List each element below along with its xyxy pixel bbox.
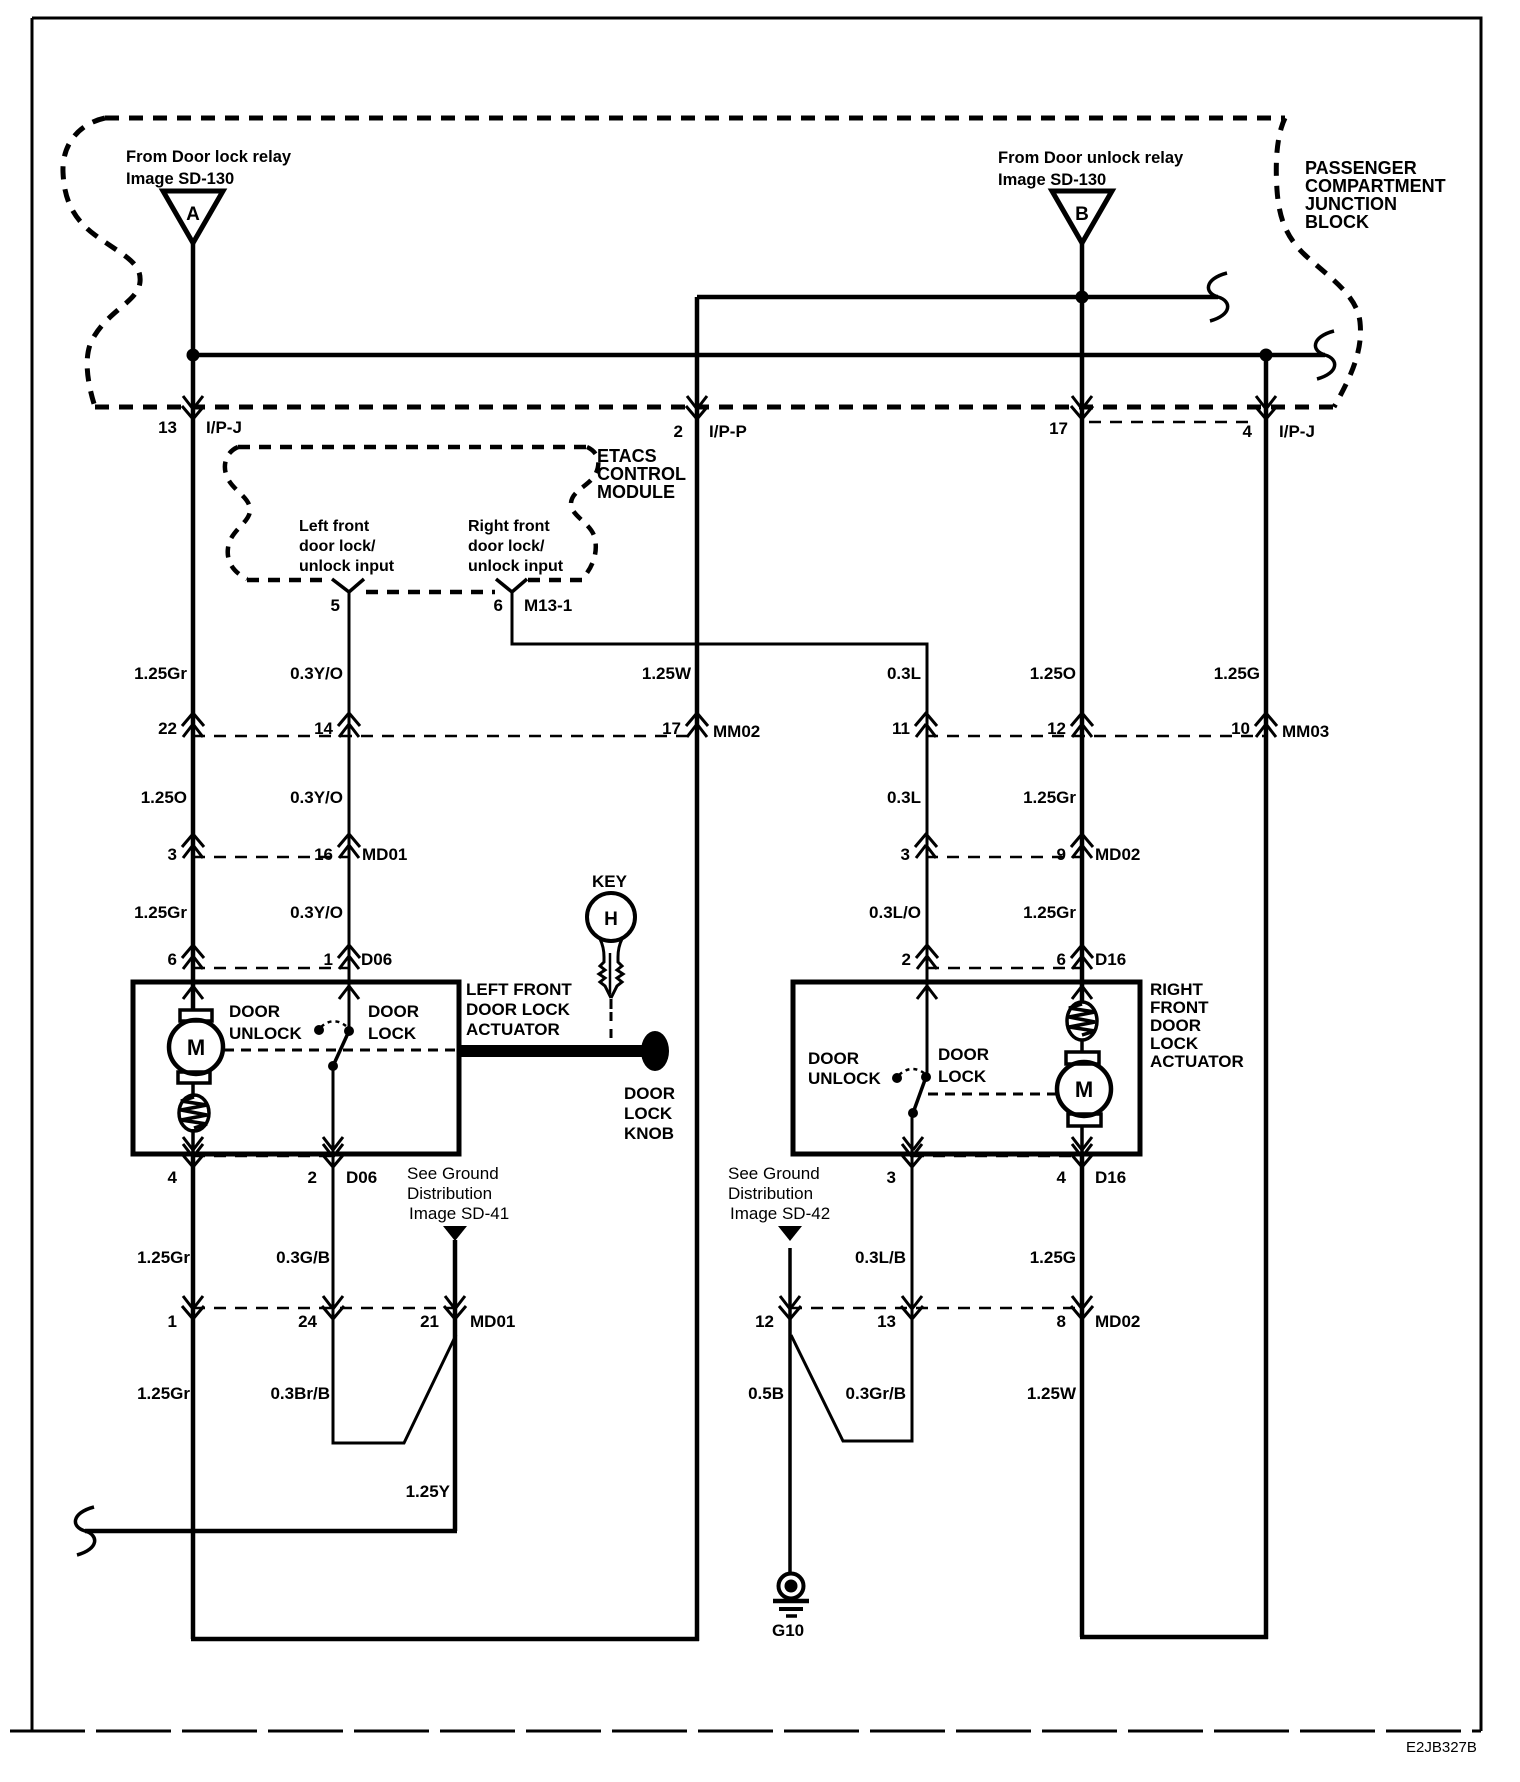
- wire right switch output (0.3L/B / 0.3Gr/B) x=912: [791, 1113, 912, 1441]
- connector row MD01 bottom dashed link: [193, 1307, 455, 1310]
- svg-text:MD01: MD01: [470, 1312, 515, 1331]
- svg-text:5: 5: [331, 596, 340, 615]
- wire left switch output (0.3G/B / 0.3Br/B) x=333: [333, 1066, 456, 1443]
- svg-text:1.25Gr: 1.25Gr: [137, 1384, 190, 1403]
- wire gauge labels row 2: [141, 788, 1077, 807]
- svg-text:6: 6: [168, 950, 177, 969]
- label Right front door lock/unlock input: [468, 518, 564, 575]
- svg-text:0.3G/B: 0.3G/B: [276, 1248, 330, 1267]
- svg-text:0.3Y/O: 0.3Y/O: [290, 788, 343, 807]
- svg-text:MM02: MM02: [713, 722, 760, 741]
- connector 9 MD02 (up): [1057, 834, 1141, 864]
- arrow up pin6 inside box: [1072, 986, 1092, 999]
- svg-text:3: 3: [901, 845, 910, 864]
- svg-text:D16: D16: [1095, 950, 1126, 969]
- svg-text:A: A: [186, 204, 200, 225]
- door lock knob rod: [459, 1045, 645, 1057]
- svg-text:4: 4: [1057, 1168, 1067, 1187]
- wire pin5 ETACS down (0.3Y/O) x=349: [348, 590, 351, 1031]
- motor M1 body: [169, 1020, 223, 1074]
- connector 11 MM03 (up): [892, 713, 937, 738]
- svg-text:ACTUATOR: ACTUATOR: [1150, 1052, 1244, 1071]
- svg-text:1.25O: 1.25O: [141, 788, 187, 807]
- svg-text:4: 4: [168, 1168, 178, 1187]
- mechanical link dashed inside box: [224, 1049, 458, 1052]
- svg-text:M: M: [187, 1035, 205, 1060]
- svg-text:2: 2: [902, 950, 911, 969]
- svg-text:CONTROL: CONTROL: [597, 464, 686, 484]
- arrow up pin2 inside box: [917, 986, 937, 999]
- switch common node right box: [908, 1108, 918, 1118]
- wire ground drop (0.5B) x=790: [788, 1248, 792, 1575]
- svg-text:unlock input: unlock input: [468, 558, 564, 575]
- svg-text:13: 13: [877, 1312, 896, 1331]
- svg-text:LOCK: LOCK: [1150, 1034, 1199, 1053]
- mechanical link dashed right box: [928, 1093, 1056, 1096]
- connector 8 MD02 (down): [1057, 1296, 1141, 1331]
- motor M2 body: [1057, 1062, 1111, 1116]
- label RIGHT FRONT DOOR LOCK ACTUATOR: [1150, 980, 1244, 1071]
- wire bottom horizontal left (1.25Gr to 1.25W) y=1639: [191, 1637, 699, 1642]
- svg-text:Distribution: Distribution: [407, 1184, 492, 1203]
- svg-text:12: 12: [1047, 719, 1066, 738]
- connector 3 MD02 (up): [901, 834, 937, 864]
- connector 12 MD02 (down): [755, 1296, 801, 1331]
- connector row D16 top dashed link: [927, 967, 1082, 970]
- dashed link 17 to 4: [1089, 421, 1253, 424]
- key head circle H: [587, 893, 635, 941]
- label DOOR UNLOCK right box: [808, 1049, 881, 1088]
- svg-text:UNLOCK: UNLOCK: [808, 1069, 881, 1088]
- connector row MD01 dashed link: [193, 856, 349, 859]
- svg-text:0.3Y/O: 0.3Y/O: [290, 664, 343, 683]
- svg-text:B: B: [1075, 204, 1089, 225]
- svg-text:KNOB: KNOB: [624, 1124, 674, 1143]
- svg-text:MD02: MD02: [1095, 1312, 1140, 1331]
- svg-text:BLOCK: BLOCK: [1305, 212, 1369, 232]
- svg-text:ETACS: ETACS: [597, 446, 657, 466]
- svg-text:DOOR: DOOR: [1150, 1016, 1201, 1035]
- connector 10 MM03 (up): [1231, 713, 1329, 741]
- svg-text:1.25G: 1.25G: [1214, 664, 1260, 683]
- svg-text:LOCK: LOCK: [938, 1067, 987, 1086]
- key shank with teeth: [599, 939, 611, 998]
- svg-text:JUNCTION: JUNCTION: [1305, 194, 1397, 214]
- svg-text:0.3L: 0.3L: [887, 664, 921, 683]
- wire below right box (1.25G / 1.25W) x=1082: [1080, 1155, 1085, 1637]
- svg-text:0.3L: 0.3L: [887, 788, 921, 807]
- svg-text:1.25W: 1.25W: [1027, 1384, 1077, 1403]
- label DOOR LOCK left box: [368, 1002, 419, 1043]
- switch contact door unlock (left): [314, 1025, 324, 1035]
- label DOOR UNLOCK left box: [229, 1002, 302, 1043]
- connector 2 D06 (down): [308, 1144, 378, 1187]
- ground G10 symbol: [772, 1574, 809, 1641]
- svg-text:2: 2: [308, 1168, 317, 1187]
- svg-text:0.5B: 0.5B: [748, 1384, 784, 1403]
- svg-text:1: 1: [168, 1312, 177, 1331]
- breaker coil left: [179, 1095, 209, 1131]
- arrow up pin6 inside box: [183, 986, 203, 999]
- motor M1 brush tab bottom: [178, 1072, 210, 1083]
- connector 2 I/P-P (down): [674, 396, 747, 441]
- svg-text:G10: G10: [772, 1621, 804, 1640]
- label See Ground Distribution Image SD-41: [407, 1164, 509, 1223]
- arrow up pin1 inside box: [339, 986, 359, 999]
- connector row D06 top dashed link: [193, 967, 349, 970]
- wire B down x=1082: [1080, 243, 1085, 1002]
- svg-text:COMPARTMENT: COMPARTMENT: [1305, 176, 1446, 196]
- connector 3 MD01 (up): [168, 834, 204, 864]
- svg-text:From Door unlock relay: From Door unlock relay: [998, 149, 1184, 167]
- svg-text:DOOR LOCK: DOOR LOCK: [466, 1000, 571, 1019]
- svg-text:10: 10: [1231, 719, 1250, 738]
- svg-text:Image SD-42: Image SD-42: [730, 1204, 830, 1223]
- connector 3 D16 (down): [887, 1144, 923, 1187]
- svg-text:1.25Y: 1.25Y: [406, 1482, 451, 1501]
- wire gauge labels row 4: [137, 1248, 1076, 1267]
- svg-text:Left front: Left front: [299, 518, 370, 535]
- passenger compartment junction block dashed outline: [105, 116, 1285, 121]
- connector 6 D16 (up): [1057, 945, 1127, 969]
- connector 24 MD01 (down): [298, 1296, 344, 1331]
- wire below left box (1.25Gr) x=193: [191, 1155, 196, 1639]
- svg-text:UNLOCK: UNLOCK: [229, 1024, 302, 1043]
- svg-text:16: 16: [314, 845, 333, 864]
- switch blade: [333, 1031, 349, 1066]
- wire horizontal top (to squiggle) y=297: [697, 295, 1218, 300]
- svg-text:0.3Y/O: 0.3Y/O: [290, 903, 343, 922]
- svg-text:MM03: MM03: [1282, 722, 1329, 741]
- connector 2 D16 (up): [902, 945, 938, 969]
- label DOOR LOCK right box: [938, 1045, 989, 1086]
- svg-text:From Door lock relay: From Door lock relay: [126, 148, 292, 166]
- connector 16 MD01 (up): [314, 834, 407, 864]
- label See Ground Distribution Image SD-42: [728, 1164, 830, 1223]
- svg-text:LOCK: LOCK: [368, 1024, 417, 1043]
- svg-text:DOOR: DOOR: [368, 1002, 419, 1021]
- svg-text:MD02: MD02: [1095, 845, 1140, 864]
- svg-text:0.3L/O: 0.3L/O: [869, 903, 921, 922]
- svg-text:D06: D06: [361, 950, 392, 969]
- ground feed triangle SD-41: [443, 1226, 467, 1241]
- svg-text:FRONT: FRONT: [1150, 998, 1209, 1017]
- node junction dot A wire y=355: [187, 349, 200, 362]
- wire 21 MD01 down (1.25Y) x=455: [453, 1240, 458, 1531]
- svg-text:0.3Gr/B: 0.3Gr/B: [846, 1384, 906, 1403]
- right front door lock actuator box: [793, 982, 1140, 1154]
- svg-text:17: 17: [662, 719, 681, 738]
- svg-text:1.25W: 1.25W: [642, 664, 692, 683]
- svg-text:I/P-J: I/P-J: [206, 418, 242, 437]
- svg-text:DOOR: DOOR: [624, 1084, 675, 1103]
- connector 12 MM03 (up): [1047, 713, 1093, 738]
- ground feed triangle SD-42: [778, 1226, 802, 1241]
- svg-text:4: 4: [1243, 422, 1253, 441]
- svg-text:1.25Gr: 1.25Gr: [1023, 903, 1076, 922]
- svg-text:Image SD-41: Image SD-41: [409, 1204, 509, 1223]
- svg-text:DOOR: DOOR: [229, 1002, 280, 1021]
- switch contact door lock right box: [921, 1072, 931, 1082]
- wire A down (1.25Gr / 1.25O / 1.25Gr) x=193: [191, 243, 196, 1011]
- svg-text:24: 24: [298, 1312, 317, 1331]
- motor M1 brush tab top: [180, 1010, 212, 1021]
- svg-text:Right front: Right front: [468, 518, 550, 535]
- node junction dot 4/IPJ wire y=355: [1260, 349, 1273, 362]
- switch blade right box: [913, 1077, 926, 1113]
- svg-text:I/P-J: I/P-J: [1279, 422, 1315, 441]
- switch motion dashed arc: [321, 1021, 346, 1027]
- svg-text:M: M: [1075, 1077, 1093, 1102]
- arrow down to pin4 inside box: [1072, 1137, 1092, 1150]
- svg-text:DOOR: DOOR: [808, 1049, 859, 1068]
- svg-text:I/P-P: I/P-P: [709, 422, 747, 441]
- svg-text:Image SD-130: Image SD-130: [998, 171, 1106, 189]
- svg-text:0.3L/B: 0.3L/B: [855, 1248, 906, 1267]
- svg-text:1.25O: 1.25O: [1030, 664, 1076, 683]
- connector 6 D06 (up): [168, 945, 204, 969]
- svg-text:11: 11: [892, 719, 910, 738]
- node junction dot B wire y=297: [1076, 291, 1089, 304]
- left front door lock actuator box: [133, 982, 459, 1154]
- label PASSENGER COMPARTMENT JUNCTION BLOCK: [1305, 158, 1446, 232]
- connector row MM03 dashed link: [926, 735, 1266, 738]
- svg-text:M13-1: M13-1: [524, 596, 572, 615]
- svg-text:Distribution: Distribution: [728, 1184, 813, 1203]
- svg-text:See Ground: See Ground: [407, 1164, 499, 1183]
- door lock knob: [641, 1031, 669, 1071]
- wire motor to coil: [191, 1083, 195, 1097]
- svg-text:LOCK: LOCK: [624, 1104, 673, 1123]
- svg-text:3: 3: [887, 1168, 896, 1187]
- svg-text:0.3Br/B: 0.3Br/B: [270, 1384, 330, 1403]
- svg-text:LEFT FRONT: LEFT FRONT: [466, 980, 572, 999]
- svg-text:KEY: KEY: [592, 872, 628, 891]
- svg-text:MODULE: MODULE: [597, 482, 675, 502]
- wire break squiggle right end y=297: [1208, 273, 1227, 321]
- svg-text:9: 9: [1057, 845, 1066, 864]
- svg-text:21: 21: [420, 1312, 439, 1331]
- connector 1 MD01 (down): [168, 1296, 204, 1331]
- svg-text:12: 12: [755, 1312, 774, 1331]
- wire gauge labels row 3: [134, 903, 1076, 922]
- connector 14 MM02 (up): [314, 713, 360, 738]
- svg-text:1.25Gr: 1.25Gr: [1023, 788, 1076, 807]
- svg-text:ACTUATOR: ACTUATOR: [466, 1020, 560, 1039]
- svg-text:E2JB327B: E2JB327B: [1406, 1739, 1477, 1756]
- svg-text:MD01: MD01: [362, 845, 407, 864]
- arrow down to pin4 inside box: [183, 1137, 203, 1150]
- connector 22 MM02 (up): [158, 713, 204, 738]
- motor M2 brush tab bottom: [1068, 1114, 1101, 1126]
- connector row MD02 dashed link: [926, 856, 1082, 859]
- svg-text:unlock input: unlock input: [299, 558, 395, 575]
- svg-text:DOOR: DOOR: [938, 1045, 989, 1064]
- wire 1.25Y horizontal y=1531: [85, 1529, 457, 1534]
- svg-text:17: 17: [1049, 419, 1068, 438]
- wire bottom horizontal right y=1637: [1080, 1635, 1268, 1640]
- arrow down to pin2 inside box: [323, 1137, 343, 1150]
- ETACS pin 6 funnel: [496, 579, 527, 592]
- switch motion dashed arc right box: [899, 1069, 924, 1075]
- connector 1 D06 (up): [324, 945, 393, 969]
- svg-text:1.25Gr: 1.25Gr: [134, 664, 187, 683]
- label DOOR LOCK KNOB: [624, 1084, 675, 1143]
- svg-text:door lock/: door lock/: [468, 538, 545, 555]
- switch contact door lock (right, pin1): [344, 1026, 354, 1036]
- svg-text:PASSENGER: PASSENGER: [1305, 158, 1417, 178]
- wire gauge labels row 5: [137, 1384, 1077, 1403]
- svg-text:RIGHT: RIGHT: [1150, 980, 1204, 999]
- label Left front door lock/unlock input: [299, 518, 395, 575]
- wire 4 I/P-J down (1.25G) x=1266: [1264, 355, 1269, 1639]
- svg-text:D06: D06: [346, 1168, 377, 1187]
- svg-text:See Ground: See Ground: [728, 1164, 820, 1183]
- svg-text:1: 1: [324, 950, 333, 969]
- connector 17 MM02 (up): [662, 713, 760, 741]
- connector row MM02 dashed link: [193, 735, 697, 738]
- svg-text:22: 22: [158, 719, 177, 738]
- connector 4 D06 (down): [168, 1144, 204, 1187]
- svg-text:2: 2: [674, 422, 683, 441]
- svg-text:3: 3: [168, 845, 177, 864]
- wire 2 I/P-P down (1.25W) x=697: [695, 297, 700, 1641]
- wire horizontal y=355: [193, 353, 1325, 358]
- svg-text:1.25Gr: 1.25Gr: [137, 1248, 190, 1267]
- svg-text:6: 6: [1057, 950, 1066, 969]
- svg-text:D16: D16: [1095, 1168, 1126, 1187]
- connector 4 I/P-J (down): [1243, 396, 1315, 441]
- connector row MD02 bottom dashed link: [790, 1307, 1082, 1310]
- svg-text:13: 13: [158, 418, 177, 437]
- switch contact door unlock right box: [892, 1073, 902, 1083]
- connector 21 MD01 (down): [420, 1296, 515, 1331]
- wire break squiggle right end y=355: [1315, 331, 1334, 379]
- label ETACS CONTROL MODULE: [597, 446, 686, 502]
- wire break squiggle left end y=1531: [75, 1507, 94, 1555]
- triangle connector A (From Door lock relay): [126, 148, 292, 243]
- svg-text:1.25G: 1.25G: [1030, 1248, 1076, 1267]
- motor M2 brush tab top: [1066, 1052, 1099, 1064]
- connector 4 D16 (down): [1057, 1144, 1127, 1187]
- connector row D16 bottom dashed link: [912, 1155, 1082, 1158]
- connector 17 (down): [1049, 396, 1093, 438]
- wire pin6 M13-1 (0.3L) to x=927: [512, 590, 927, 1077]
- breaker coil right: [1067, 1002, 1097, 1040]
- ETACS control module dashed outline: [238, 445, 587, 450]
- svg-text:8: 8: [1057, 1312, 1066, 1331]
- svg-text:door lock/: door lock/: [299, 538, 376, 555]
- switch common node: [328, 1061, 338, 1071]
- connector 13 MD02 (down): [877, 1296, 923, 1331]
- svg-text:Image SD-130: Image SD-130: [126, 170, 234, 188]
- wire gauge labels row 1: [134, 664, 1260, 683]
- key mechanical dashed link: [610, 1012, 613, 1045]
- label LEFT FRONT DOOR LOCK ACTUATOR: [466, 980, 572, 1039]
- svg-text:1.25Gr: 1.25Gr: [134, 903, 187, 922]
- connector 13 I/P-J (down): [158, 396, 242, 437]
- wire coil to motor: [1080, 1040, 1084, 1053]
- ETACS pin 5 funnel: [332, 579, 364, 592]
- svg-text:6: 6: [494, 596, 503, 615]
- svg-text:H: H: [604, 909, 618, 930]
- arrow down to pin3 inside box: [903, 1137, 923, 1150]
- triangle connector B (From Door unlock relay): [998, 149, 1184, 243]
- svg-text:14: 14: [314, 719, 333, 738]
- connector row D06 bottom dashed link: [193, 1155, 333, 1158]
